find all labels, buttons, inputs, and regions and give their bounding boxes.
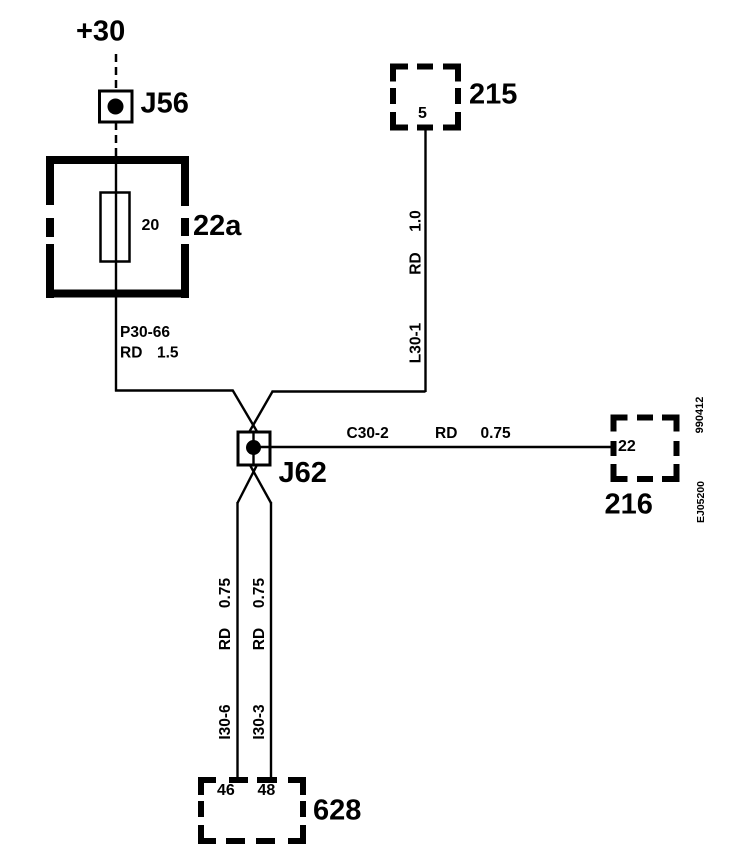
svg-text:22: 22 [618,438,636,455]
junction J62 [238,432,270,465]
connector 215 (dashed box) [390,64,461,131]
svg-text:22a: 22a [193,210,242,242]
junction node dot J62 [246,440,261,455]
svg-text:+30: +30 [76,16,125,48]
svg-text:L30-1: L30-1 [408,322,425,363]
svg-text:628: 628 [313,795,361,827]
connector 216 (dashed box) [611,415,680,483]
fuse holder box 22a (thick dashed) [46,156,189,298]
svg-text:I30-6: I30-6 [217,704,234,740]
svg-text:RD: RD [251,628,268,650]
svg-text:215: 215 [469,79,517,111]
junction node dot J56 [108,99,124,115]
connector 628 (dashed box) [198,777,306,844]
svg-text:216: 216 [605,489,653,521]
wire C30-2 to connector 216 [254,446,611,448]
svg-text:C30-2: C30-2 [347,425,389,442]
svg-text:0.75: 0.75 [217,578,234,609]
svg-text:RD: RD [435,425,457,442]
svg-text:J62: J62 [279,457,327,489]
svg-text:46: 46 [217,782,235,799]
wire I30-3 (right vertical to 628 pin 48) [270,502,272,780]
svg-text:EJ05200: EJ05200 [695,481,707,523]
svg-text:I30-3: I30-3 [251,704,268,740]
wire L30-1 horizontal run to junction [272,390,426,392]
svg-text:20: 20 [142,217,160,234]
svg-text:P30-66: P30-66 [120,324,170,341]
wire L30-1 from 215 pin 5 [424,130,426,392]
wire diagonals below J62 [238,466,257,503]
wire: +30 feed to J56 (dashed) [115,54,118,90]
svg-text:J56: J56 [141,88,189,120]
fuse F 20 [101,193,130,262]
wire I30-6 (left vertical to 628 pin 46) [236,502,238,780]
junction J56 [100,91,133,122]
svg-text:48: 48 [258,782,276,799]
wire P30-66: fuse feed through fuse holder down [115,164,117,392]
svg-text:1.0: 1.0 [408,210,425,232]
svg-text:RD: RD [217,628,234,650]
wire diagonal into J62 (left) [233,390,258,432]
svg-text:RD: RD [120,345,142,362]
wire: J56 to fuse holder (dashed) [115,122,118,158]
wire diagonal into J62 (right) [250,392,273,432]
svg-text:990412: 990412 [694,397,706,434]
svg-text:0.75: 0.75 [251,578,268,609]
svg-text:RD: RD [408,252,425,274]
svg-text:1.5: 1.5 [157,345,179,362]
svg-text:0.75: 0.75 [481,425,512,442]
svg-text:5: 5 [418,105,427,122]
wire P30-66 horizontal run to junction [115,389,234,391]
